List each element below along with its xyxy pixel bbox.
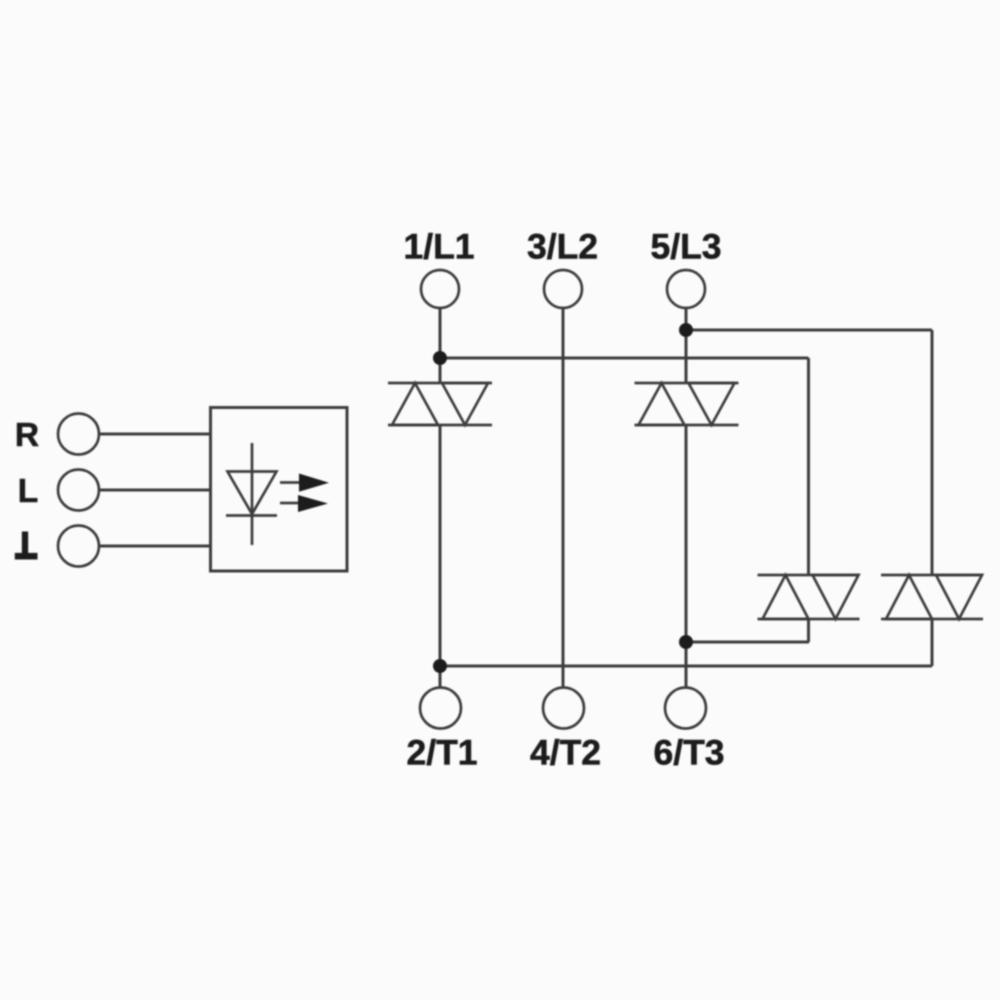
svg-text:5/L3: 5/L3 [650, 227, 721, 267]
svg-text:L: L [18, 473, 38, 510]
svg-text:1/L1: 1/L1 [403, 227, 474, 267]
svg-text:6/T3: 6/T3 [653, 733, 724, 773]
svg-text:4/T2: 4/T2 [530, 733, 601, 773]
svg-text:R: R [15, 417, 39, 454]
svg-text:3/L2: 3/L2 [527, 227, 598, 267]
svg-text:2/T1: 2/T1 [406, 733, 477, 773]
